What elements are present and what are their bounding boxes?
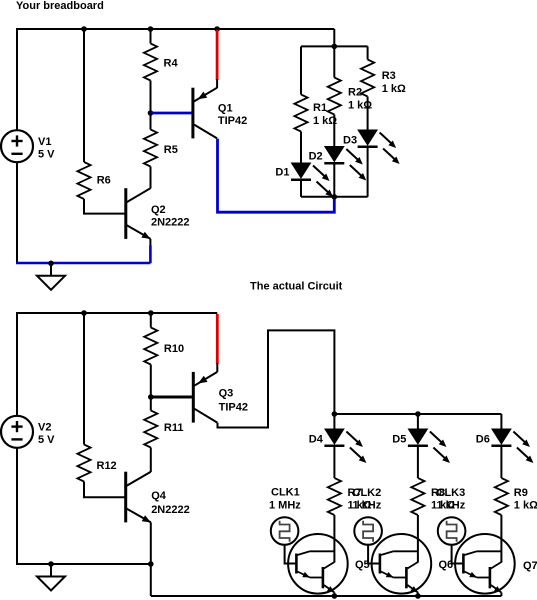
wire V1 bottom to ground rail xyxy=(16,162,18,263)
label Q1 / TIP42 xyxy=(218,103,247,128)
label V2 / 5 V xyxy=(38,422,55,447)
svg-text:R1: R1 xyxy=(313,102,327,114)
LED D4 xyxy=(324,429,344,446)
wire top rail (bottom circuit) xyxy=(17,312,217,314)
svg-text:CLK2: CLK2 xyxy=(353,487,382,499)
wire R10 bottom to node xyxy=(150,365,152,398)
label R11 xyxy=(164,422,184,434)
node top rail / R10 xyxy=(148,310,154,316)
LED D1 light arrows xyxy=(313,166,333,198)
wire D1 to bottom rail xyxy=(300,181,302,197)
wire R3 to D3 xyxy=(367,97,369,131)
label D5 xyxy=(392,433,406,445)
label R5 xyxy=(164,144,178,156)
label CLK3 / 1 kHz xyxy=(437,487,466,512)
resistor R8 xyxy=(411,478,424,515)
wire D6 top lead xyxy=(500,414,502,429)
LED D3 xyxy=(358,130,378,147)
label Q3 / TIP42 xyxy=(219,387,248,413)
resistor R12 xyxy=(77,445,90,482)
resistor R4 xyxy=(144,44,157,81)
svg-text:R6: R6 xyxy=(97,174,111,186)
wire R7 to Q5 collector xyxy=(333,515,335,563)
label R6 xyxy=(97,174,111,186)
wire R4 top lead xyxy=(150,29,152,44)
wire bottom emitter rail (bottom circuit) xyxy=(151,595,502,597)
node R4/R5/Q1-base junction xyxy=(148,110,154,116)
wire D5 to R8 xyxy=(417,446,419,478)
svg-text:5 V: 5 V xyxy=(38,434,55,446)
wire R2 to D2 xyxy=(333,115,335,147)
wire Q3 emitter feed (red) xyxy=(216,314,219,364)
svg-text:Q6: Q6 xyxy=(439,559,454,571)
node bottom rail / Q6 emitter xyxy=(415,593,421,599)
svg-text:D5: D5 xyxy=(392,433,406,445)
wire R11 bottom lead xyxy=(150,448,152,473)
wire R11 top lead xyxy=(150,397,152,411)
svg-text:TIP42: TIP42 xyxy=(218,115,247,127)
transistor Q3 (TIP42 PNP) xyxy=(193,372,217,423)
wire R10 top lead xyxy=(150,313,152,328)
wire LED bank bottom rail xyxy=(301,196,368,198)
svg-text:1 kHz: 1 kHz xyxy=(353,500,382,512)
node LED bank bottom junction xyxy=(332,194,338,200)
wire R5 bottom lead xyxy=(150,167,152,189)
wire R1 top lead xyxy=(300,46,302,94)
label R3 / 1 k&#937; xyxy=(382,70,406,95)
label CLK1 / 1 MHz xyxy=(269,487,301,512)
LED D3 light arrows xyxy=(380,133,400,165)
svg-text:V1: V1 xyxy=(38,136,51,148)
ground (top circuit) xyxy=(37,263,65,290)
LED D6 xyxy=(491,429,511,446)
svg-text:Q2: Q2 xyxy=(151,204,166,216)
transistor Q5 internal Darlington pair xyxy=(296,551,334,592)
svg-text:Q5: Q5 xyxy=(355,559,370,571)
wire R4 bottom to node xyxy=(150,81,152,114)
resistor R9 xyxy=(495,478,508,515)
LED D6 light arrows xyxy=(513,432,533,464)
label Q5 xyxy=(355,559,370,571)
svg-text:R11: R11 xyxy=(164,422,184,434)
label D1 xyxy=(275,166,289,178)
title: Your breadboard xyxy=(16,0,104,12)
wire red-to-Q1 stub xyxy=(216,79,218,88)
svg-text:R3: R3 xyxy=(382,70,396,82)
svg-text:Q7: Q7 xyxy=(523,560,537,572)
wire R3 top lead xyxy=(367,46,369,59)
svg-text:R12: R12 xyxy=(97,460,117,472)
svg-text:Q4: Q4 xyxy=(151,490,167,502)
svg-text:Your breadboard: Your breadboard xyxy=(16,0,104,12)
label D4 xyxy=(309,433,324,445)
voltage source V1 xyxy=(1,130,33,162)
svg-text:D1: D1 xyxy=(275,166,289,178)
transistor Q4 (2N2222 NPN) xyxy=(126,472,151,523)
ground (bottom circuit) xyxy=(37,564,65,591)
resistor R5 xyxy=(144,130,157,167)
transistor Q6 internal Darlington pair xyxy=(380,551,418,592)
resistor R10 xyxy=(144,328,157,365)
wire CLK2 to Q6 base xyxy=(368,545,379,564)
wire R5 top lead xyxy=(150,113,152,130)
transistor Q7 internal Darlington pair xyxy=(463,551,501,592)
label V1 / 5 V xyxy=(38,136,55,161)
resistor R11 xyxy=(144,411,157,448)
node LED rail / D4 xyxy=(332,411,338,417)
svg-text:1 MHz: 1 MHz xyxy=(269,499,301,511)
clock source CLK2 xyxy=(354,517,382,545)
wire Q3 collector staircase to LED rail xyxy=(218,330,335,427)
wire left vertical to V1 xyxy=(16,28,18,130)
svg-text:2N2222: 2N2222 xyxy=(151,216,190,228)
resistor R1 xyxy=(294,95,307,132)
label R7 / 1 k&#937; xyxy=(348,487,372,512)
label R2 / 1 k&#937; xyxy=(348,87,372,112)
svg-text:R9: R9 xyxy=(514,487,528,499)
svg-text:CLK3: CLK3 xyxy=(437,487,466,499)
svg-text:1 kΩ: 1 kΩ xyxy=(514,500,537,512)
wire R6 branch from top rail xyxy=(83,29,85,162)
wire top rail (top circuit) xyxy=(17,28,334,30)
wire bottom blue rail (top circuit) xyxy=(16,262,150,265)
wire LED rail (bottom circuit) xyxy=(334,413,501,415)
svg-text:V2: V2 xyxy=(38,422,51,434)
node top rail / Q1 red wire xyxy=(214,26,220,32)
label R8 / 1 k&#937; xyxy=(431,487,455,512)
node bottom rail / Q5 emitter xyxy=(332,593,338,599)
node top rail / R12 xyxy=(81,310,87,316)
resistor R3 xyxy=(361,60,374,97)
node LED rail / D5 xyxy=(415,411,421,417)
clock source CLK1 xyxy=(271,517,299,545)
wire D2 to bottom rail xyxy=(333,164,335,197)
label R1 / 1 k&#937; xyxy=(313,102,337,127)
wire CLK3 to Q7 base xyxy=(452,545,463,564)
node LED bank top junction xyxy=(332,44,338,50)
node ground junction (top) xyxy=(48,261,54,267)
LED D1 xyxy=(291,163,311,180)
wire D3 to bottom rail xyxy=(367,148,369,197)
wire Q5 emitter to bottom rail xyxy=(333,593,335,597)
svg-text:D3: D3 xyxy=(343,134,357,146)
wire R9 to Q7 collector xyxy=(500,515,502,563)
label D3 xyxy=(343,134,357,146)
wire Q4 emitter down to bottom rails xyxy=(150,522,152,596)
label Q4 / 2N2222 xyxy=(151,490,190,516)
label Q6 xyxy=(439,559,454,571)
LED D4 light arrows xyxy=(346,432,366,464)
label CLK2 / 1 kHz xyxy=(353,487,382,512)
svg-text:The actual Circuit: The actual Circuit xyxy=(250,280,343,292)
wire R12 to Q4 base xyxy=(84,482,125,498)
svg-text:R5: R5 xyxy=(164,144,178,156)
label R12 xyxy=(97,460,117,472)
wire Q1 base (blue) xyxy=(151,112,192,115)
node ground junction (bottom) xyxy=(48,561,54,567)
LED D5 xyxy=(408,429,428,446)
wire D4 to R7 xyxy=(333,446,335,478)
wire R1 to D1 xyxy=(300,132,302,164)
label R4 xyxy=(164,58,179,70)
wire top-right corner to LED bank xyxy=(333,29,335,46)
resistor R2 xyxy=(328,78,341,115)
label R9 / 1 k&#937; xyxy=(514,487,537,512)
transistor Q7 (Darlington) outline xyxy=(455,534,515,594)
wire bottom rail (bottom circuit) xyxy=(16,563,151,565)
label D6 xyxy=(476,433,490,445)
transistor Q6 (Darlington) outline xyxy=(372,534,432,594)
svg-text:1 kHz: 1 kHz xyxy=(437,500,466,512)
resistor R7 xyxy=(328,478,341,515)
svg-text:D2: D2 xyxy=(309,150,323,162)
wire V2 bottom to ground rail xyxy=(16,448,18,565)
svg-text:D6: D6 xyxy=(476,433,490,445)
wire R12 branch from top rail xyxy=(83,313,85,445)
transistor Q1 (TIP42 PNP) xyxy=(193,88,217,139)
wire LED bank top rail xyxy=(301,45,368,47)
LED D2 light arrows xyxy=(346,149,366,181)
node top rail / R4 xyxy=(148,26,154,32)
svg-text:TIP42: TIP42 xyxy=(219,402,248,414)
wire red-to-Q3 stub xyxy=(216,363,218,372)
node R10/R11/Q3-base junction xyxy=(148,394,154,400)
label D2 xyxy=(309,150,323,162)
label Q7 xyxy=(523,560,537,572)
wire Q1 collector down (blue) xyxy=(218,139,335,213)
svg-text:R2: R2 xyxy=(348,87,362,99)
svg-text:R10: R10 xyxy=(164,343,184,355)
wire CLK1 to Q5 base xyxy=(285,545,296,564)
wire D6 to R9 xyxy=(500,446,502,478)
node Q4 emitter / ground rail xyxy=(148,561,154,567)
node top rail / R6 xyxy=(81,26,87,32)
svg-text:R4: R4 xyxy=(164,58,179,70)
svg-text:Q3: Q3 xyxy=(219,387,234,399)
wire left vertical to V2 xyxy=(16,312,18,416)
wire D4 top lead xyxy=(333,414,335,429)
label Q2 / 2N2222 xyxy=(151,204,190,229)
LED D2 xyxy=(324,147,344,164)
wire R6 to Q2 base xyxy=(84,199,125,214)
clock source CLK3 xyxy=(438,517,466,545)
svg-text:2N2222: 2N2222 xyxy=(151,504,190,516)
title: The actual Circuit xyxy=(250,280,343,292)
resistor R6 xyxy=(77,162,90,199)
voltage source V2 xyxy=(1,416,33,448)
svg-text:5 V: 5 V xyxy=(38,149,55,161)
transistor Q5 (Darlington) outline xyxy=(288,534,348,594)
wire R8 to Q6 collector xyxy=(417,515,419,563)
wire Q7 emitter to bottom rail xyxy=(500,593,502,597)
wire D5 top lead xyxy=(417,414,419,429)
LED D5 light arrows xyxy=(430,432,450,464)
svg-text:1 kΩ: 1 kΩ xyxy=(348,100,372,112)
wire Q3 base xyxy=(151,396,192,399)
label R10 xyxy=(164,343,184,355)
wire Q6 emitter to bottom rail xyxy=(417,593,419,597)
svg-text:D4: D4 xyxy=(309,433,324,445)
svg-text:1 kΩ: 1 kΩ xyxy=(382,83,406,95)
svg-text:CLK1: CLK1 xyxy=(271,487,300,499)
svg-text:Q1: Q1 xyxy=(218,103,233,115)
transistor Q2 (2N2222 NPN) xyxy=(126,188,151,239)
wire Q1 emitter feed (red) xyxy=(216,30,219,80)
wire Q2 emitter down (black then blue) xyxy=(149,239,151,263)
wire R2 top lead xyxy=(333,46,335,77)
